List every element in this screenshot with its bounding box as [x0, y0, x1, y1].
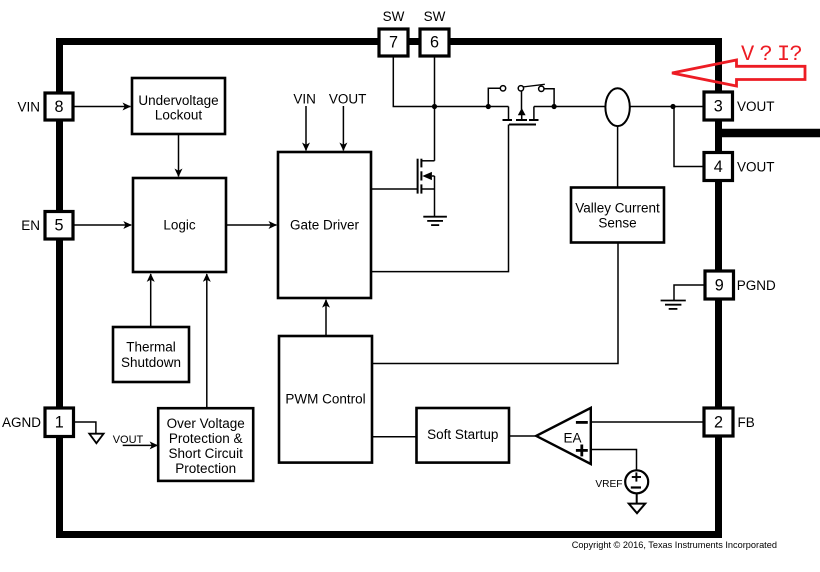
svg-text:Short Circuit: Short Circuit: [169, 446, 244, 461]
chip boundary border: [60, 42, 719, 535]
svg-text:?: ?: [760, 42, 773, 67]
wire pin6 to low-side drain: [434, 56, 436, 161]
transistor Q2 pass MOSFET with body switch: [503, 91, 539, 125]
pin 4 VOUT: [704, 153, 775, 181]
wire VREF to ground: [636, 493, 638, 504]
wire pin7 to SW node: [393, 56, 434, 107]
svg-text:Protection: Protection: [175, 461, 236, 476]
svg-text:SW: SW: [424, 9, 446, 24]
current sense loop: [605, 88, 629, 126]
annotation red arrow: [672, 60, 805, 86]
wire Thermal Shutdown to Logic: [150, 274, 152, 327]
svg-text:Undervoltage: Undervoltage: [138, 93, 218, 108]
svg-text:VOUT: VOUT: [737, 99, 775, 114]
voltage source VREF: [595, 470, 648, 493]
svg-text:4: 4: [714, 158, 723, 176]
svg-text:Over Voltage: Over Voltage: [167, 416, 245, 431]
svg-text:PGND: PGND: [737, 278, 776, 293]
pin 7 SW: [379, 9, 408, 56]
node switch right junction: [552, 104, 557, 109]
wire ellipse to Valley Current Sense: [617, 126, 619, 187]
wire pin5 to Logic: [73, 224, 131, 226]
wire Soft Startup to EA output: [509, 435, 536, 437]
svg-text:Protection &: Protection &: [169, 431, 243, 446]
node SW junction: [432, 104, 437, 109]
block Valley Current Sense: [571, 188, 664, 243]
svg-text:7: 7: [389, 33, 398, 51]
pin 2 FB: [704, 408, 755, 436]
wire Logic to Gate Driver: [226, 224, 276, 226]
wire pin1 to ground: [74, 422, 96, 434]
svg-text:8: 8: [54, 98, 63, 116]
wire ellipse to pin3: [630, 106, 704, 108]
svg-text:VOUT: VOUT: [113, 434, 144, 446]
svg-text:Valley Current: Valley Current: [575, 200, 660, 215]
wire PWM Control to Gate Driver: [325, 300, 327, 336]
svg-text:VIN: VIN: [17, 100, 40, 115]
block Thermal Shutdown: [113, 327, 189, 382]
svg-text:5: 5: [54, 217, 63, 235]
svg-text:9: 9: [715, 277, 724, 295]
wire VOUT into OVP: [123, 444, 158, 446]
wire pin8 to UVLO: [73, 106, 130, 108]
wire UVLO to Logic: [178, 134, 180, 176]
wire VOUT into Gate Driver: [342, 106, 344, 150]
ground earth at PGND: [661, 301, 686, 309]
ground below VREF: [629, 504, 645, 514]
svg-text:3: 3: [714, 98, 723, 116]
svg-text:PWM Control: PWM Control: [285, 391, 365, 406]
wire Valley Current Sense to PWM Control: [372, 242, 618, 364]
pin 6 SW: [420, 9, 449, 56]
wire pass switch to ellipse: [534, 106, 606, 108]
switch S1 contacts: [488, 84, 554, 106]
svg-text:2: 2: [714, 414, 723, 432]
svg-text:VOUT: VOUT: [737, 160, 775, 175]
wire OVP to Logic: [206, 274, 208, 408]
node VOUT junction: [670, 104, 675, 109]
pin 5 EN: [21, 212, 73, 240]
block Over Voltage Protection & Short Circuit Protection: [158, 408, 253, 481]
pin 9 PGND: [705, 271, 776, 299]
pin 1 AGND: [2, 408, 74, 437]
svg-text:Soft Startup: Soft Startup: [427, 427, 498, 442]
wire EA non-inverting input to VREF: [591, 450, 637, 471]
wire Gate Driver to low-side gate: [371, 188, 418, 190]
svg-text:AGND: AGND: [2, 415, 41, 430]
wire SW node to pass switch: [435, 106, 509, 108]
pin 8 VIN: [17, 93, 73, 120]
svg-text:Shutdown: Shutdown: [121, 355, 181, 370]
op-amp EA error amplifier: [536, 408, 591, 464]
svg-text:SW: SW: [383, 9, 405, 24]
svg-text:I: I: [777, 42, 790, 67]
svg-text:Gate Driver: Gate Driver: [290, 217, 360, 232]
svg-text:Sense: Sense: [598, 215, 636, 230]
transistor Q1 low-side MOSFET: [418, 159, 435, 217]
wire VIN into Gate Driver: [305, 106, 307, 150]
ground AGND triangle: [89, 434, 103, 444]
svg-text:EN: EN: [21, 218, 40, 233]
wire Gate Driver to pass gate: [371, 125, 509, 272]
wire PWM Control to Soft Startup: [372, 436, 417, 438]
node switch left junction: [486, 104, 491, 109]
pin 3 VOUT: [704, 92, 775, 120]
block Gate Driver: [278, 152, 371, 298]
block PWM Control: [279, 336, 372, 463]
svg-text:VOUT: VOUT: [329, 92, 367, 107]
block Soft Startup: [417, 408, 510, 463]
wire pin2 FB to EA inverting input: [591, 421, 704, 423]
svg-text:6: 6: [430, 33, 439, 51]
svg-text:Lockout: Lockout: [155, 108, 203, 123]
svg-text:Copyright © 2016, Texas Instru: Copyright © 2016, Texas Instruments Inco…: [572, 540, 777, 550]
svg-text:FB: FB: [738, 415, 755, 430]
wire pin9 to ground: [674, 285, 705, 301]
block Logic: [133, 178, 226, 272]
ground earth below Q1: [423, 217, 447, 225]
svg-text:?: ?: [790, 42, 803, 67]
wire branch to pin4: [674, 107, 704, 167]
svg-text:Thermal: Thermal: [126, 340, 176, 355]
annotation red text V ? I ?: [741, 42, 803, 67]
svg-text:1: 1: [55, 414, 64, 432]
svg-text:VREF: VREF: [595, 479, 622, 490]
svg-text:VIN: VIN: [293, 92, 316, 107]
svg-text:Logic: Logic: [163, 217, 196, 232]
VOUT rail thick bar: [715, 129, 820, 137]
svg-text:EA: EA: [563, 430, 581, 445]
svg-text:V: V: [741, 42, 755, 67]
block Undervoltage Lockout: [132, 78, 225, 134]
